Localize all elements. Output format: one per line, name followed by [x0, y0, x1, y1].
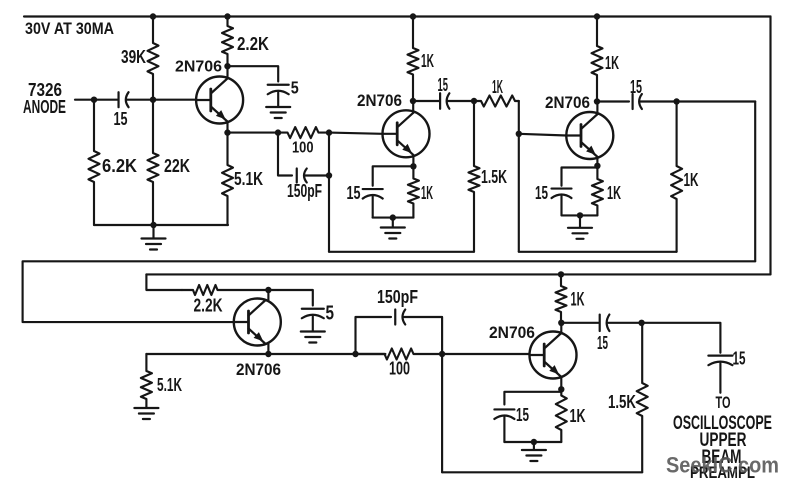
wire Q3 collector: [596, 102, 598, 115]
wire line B (supply to lower stage): [146, 273, 770, 275]
wire C2 to ground: [277, 93, 279, 107]
wire Q3 RC bottom: [562, 214, 598, 216]
svg-text:1K: 1K: [421, 51, 434, 71]
wire collector node to C2: [228, 66, 279, 81]
svg-text:1K: 1K: [684, 170, 699, 190]
svg-text:30V AT 30MA: 30V AT 30MA: [25, 20, 114, 38]
svg-text:1K: 1K: [605, 53, 619, 73]
resistor 1K (Q2 load): [408, 17, 419, 102]
wire Q5 emitter: [560, 377, 562, 390]
ground (input stage): [142, 237, 166, 239]
node Q5 collector node: [558, 320, 564, 326]
wire series-1K to Q3 base: [518, 101, 520, 134]
resistor 1.5K (Q5 feedback): [637, 323, 648, 473]
resistor 1K (Q5 load): [556, 274, 567, 322]
svg-text:2N706: 2N706: [236, 361, 281, 379]
transistor Q5 2N706: [530, 332, 577, 379]
svg-text:15: 15: [347, 183, 361, 203]
svg-text:ANODE: ANODE: [23, 97, 66, 117]
svg-text:2.2K: 2.2K: [237, 34, 269, 54]
wire ground stub (input stage): [152, 225, 154, 238]
resistor 5.1K (Q4 emitter): [141, 354, 152, 408]
node rail-39K junction: [150, 13, 156, 19]
wire Q5 base feedback riser: [441, 354, 443, 472]
node 150pF junction: [326, 172, 332, 178]
wire Q4 emitter line: [146, 353, 268, 355]
svg-text:15: 15: [438, 75, 449, 95]
svg-text:2N706: 2N706: [357, 91, 402, 110]
resistor 1K (series to Q3): [474, 96, 519, 107]
resistor 2.2K (Q4 load): [182, 285, 268, 295]
wire Q2 RC bottom: [373, 217, 414, 219]
wire Q5 ground stub: [533, 442, 535, 450]
wire Q3 base feedback riser: [518, 134, 520, 252]
transistor Q3 2N706: [566, 112, 613, 159]
wire Q3 collector node to C7: [597, 100, 629, 102]
node Q3 base junction: [516, 131, 522, 137]
capacitor C7 15 (Q3 output): [631, 94, 633, 109]
wire Q4 emitter to 100: [268, 353, 385, 355]
resistor 39K: [148, 17, 159, 100]
svg-text:2N706: 2N706: [489, 323, 535, 342]
wire line A (signal to lower stage): [23, 261, 756, 322]
wire Q2 collector node to C4: [413, 100, 439, 102]
node X3: [673, 98, 679, 104]
wire Q1 emitter to 100: [228, 132, 279, 134]
ground (5.1K): [134, 407, 158, 409]
wire right riser down (output to line A): [754, 102, 756, 262]
capacitor C10 5 (Q4 collector bypass): [302, 308, 324, 310]
capacitor 15 (Q2 emitter): [363, 188, 383, 190]
node Q3 RC ground junction: [577, 212, 583, 218]
wire Q4 emitter: [267, 344, 269, 355]
node Q2 emitter node: [410, 163, 416, 169]
ground (Q2 emitter): [381, 226, 405, 228]
svg-text:SeekIC.com: SeekIC.com: [666, 453, 779, 478]
wire 150pF to junction: [305, 174, 329, 176]
svg-text:15: 15: [114, 109, 128, 129]
wire C13 to node X5: [608, 322, 642, 324]
wire Q5 RC bottom: [504, 441, 561, 443]
resistor 1K (Q3 emitter): [592, 166, 603, 216]
wire Q5 collector node to C13: [561, 322, 598, 324]
resistor 2.2K (Q1 load): [222, 17, 233, 67]
wire C10 to ground: [312, 317, 314, 332]
wire to Q2 base: [329, 133, 383, 134]
ground (C2): [266, 106, 290, 108]
resistor 22K: [148, 100, 159, 225]
wire Q3 base junction to base: [519, 134, 567, 136]
svg-text:39K: 39K: [121, 47, 146, 67]
transistor Q1 2N706: [196, 77, 243, 124]
svg-text:5.1K: 5.1K: [157, 375, 182, 395]
wire Q5 RC bottom-left: [503, 417, 505, 442]
wire Q2 RC top: [373, 166, 414, 186]
node Q1 collector node: [224, 63, 230, 69]
wire Q5 RC top: [504, 392, 561, 405]
resistor 100 (series, Q5 input): [356, 349, 443, 360]
resistor 1K (Q2 emitter): [408, 166, 419, 217]
wire input from 7326 anode: [75, 99, 118, 101]
wire Q5 feedback bottom: [442, 471, 642, 473]
wire 150pF branch down-left: [278, 133, 292, 176]
svg-text:6.2K: 6.2K: [102, 156, 137, 176]
node input-6.2K junction: [91, 97, 97, 103]
node Q5 RC ground junction: [531, 439, 537, 445]
node line B - 1K (Q5 load) junction: [558, 271, 564, 277]
svg-text:1K: 1K: [570, 406, 586, 426]
node rail-1K (stage2) junction: [410, 13, 416, 19]
wire 150pF to Q5 base riser: [403, 317, 442, 354]
svg-text:1K: 1K: [571, 290, 585, 311]
node Q4 emitter node: [265, 351, 271, 357]
wire Q2 ground stub: [392, 218, 394, 227]
wire Q4 collector node to C10: [268, 290, 312, 306]
wire C7 to node X3: [640, 100, 677, 102]
transistor Q4 2N706: [234, 299, 281, 346]
capacitor 15 (Q3 emitter): [552, 187, 572, 189]
node rail-1K (stage3) junction: [594, 13, 600, 19]
svg-text:15: 15: [516, 405, 529, 425]
svg-text:1.5K: 1.5K: [608, 392, 636, 412]
svg-text:1K: 1K: [421, 183, 433, 203]
node ground junction (input stage): [150, 222, 156, 228]
svg-text:15: 15: [535, 183, 548, 203]
wire bias bottom: [94, 224, 228, 226]
svg-text:TO: TO: [716, 394, 731, 412]
svg-text:1.5K: 1.5K: [481, 167, 507, 187]
wire base node to Q1 base: [153, 99, 196, 101]
node 150pF-100 junction (bottom): [352, 351, 358, 357]
resistor 1K (Q3 feedback): [671, 102, 682, 252]
wire to Q5 base: [442, 353, 529, 355]
wire Q3 RC top: [562, 168, 598, 186]
wire Q2 feedback bottom: [329, 251, 474, 253]
capacitor C15 15 (output): [708, 355, 732, 357]
node X2: [471, 98, 477, 104]
wire Q2 base feedback riser: [328, 133, 330, 252]
transistor Q2 2N706: [383, 110, 430, 157]
resistor 1.5K (Q2 feedback): [469, 101, 480, 252]
capacitor 150pF (top): [296, 169, 298, 183]
node Q2 RC ground junction: [390, 214, 396, 220]
capacitor C2 5 (Q1 collector bypass): [268, 84, 289, 86]
svg-text:2.2K: 2.2K: [194, 296, 223, 316]
wire C4 to node X2: [448, 100, 475, 102]
svg-text:1K: 1K: [607, 183, 621, 203]
wire Q2 collector: [412, 101, 414, 113]
node T1 base node: [150, 97, 156, 103]
svg-text:5: 5: [326, 303, 335, 325]
resistor 6.2K: [89, 100, 100, 225]
wire Q3 feedback bottom: [519, 251, 677, 253]
ground (Q3 emitter): [568, 227, 592, 229]
svg-text:5.1K: 5.1K: [234, 169, 263, 189]
node Q1 emitter node: [224, 129, 230, 135]
ground (Q5 emitter): [522, 449, 546, 451]
capacitor C13 15 (Q5 output): [599, 315, 601, 332]
capacitor C1 15 (input coupling): [117, 92, 119, 107]
node Q5 base junction: [439, 351, 445, 357]
wire 30V supply rail (top): [24, 15, 771, 17]
node X5: [638, 320, 644, 326]
wire Q3 ground stub: [579, 215, 581, 227]
wire output stub: [719, 363, 721, 393]
ground (C10): [301, 330, 325, 332]
capacitor C4 15 (Q2 output): [439, 93, 441, 109]
wire right edge supply drop: [769, 17, 771, 275]
svg-text:2N706: 2N706: [175, 59, 222, 76]
svg-text:100: 100: [389, 359, 410, 379]
svg-text:1K: 1K: [492, 77, 503, 97]
svg-text:22K: 22K: [164, 156, 190, 176]
svg-text:2N706: 2N706: [545, 93, 590, 112]
node Q4 collector node: [265, 287, 271, 293]
wire 150pF branch up (bottom): [356, 317, 392, 354]
svg-text:150pF: 150pF: [287, 181, 322, 201]
wire line B corner down: [146, 274, 182, 290]
wire Q3 RC bottom-left: [560, 196, 562, 215]
svg-text:100: 100: [292, 140, 314, 157]
wire Q5 collector: [560, 323, 562, 334]
svg-text:15: 15: [630, 77, 642, 97]
svg-text:15: 15: [597, 333, 608, 353]
wire Q1 collector: [226, 66, 228, 76]
node Q3 collector node: [594, 98, 600, 104]
capacitor 150pF (bottom): [394, 310, 396, 325]
wire Q2 RC bottom-left: [372, 197, 374, 218]
svg-text:5: 5: [291, 78, 299, 98]
node emitter-150pF junction: [275, 129, 281, 135]
node Q2 collector node: [410, 98, 416, 104]
node rail-2.2K junction: [224, 13, 230, 19]
resistor 1K (Q3 load): [592, 17, 603, 102]
node 100-Q2 base junction: [326, 129, 332, 135]
svg-text:150pF: 150pF: [377, 287, 418, 307]
node Q5 emitter node: [558, 386, 564, 392]
wire Q1 emitter: [226, 122, 228, 133]
wire Q2 emitter: [412, 155, 414, 166]
resistor 1K (Q5 emitter): [556, 389, 567, 442]
svg-text:15: 15: [733, 348, 746, 368]
wire C1 to base node: [127, 99, 154, 101]
resistor 100 (series, stage2 input): [278, 127, 329, 138]
capacitor 15 (Q5 emitter): [494, 408, 514, 410]
wire X3 to right riser: [677, 100, 756, 102]
wire Q3 emitter: [596, 157, 598, 166]
resistor 5.1K (Q1 emitter): [222, 133, 233, 225]
node Q3 emitter node: [594, 163, 600, 169]
wire Q4 collector: [267, 290, 269, 301]
wire X5 to output cap: [642, 323, 721, 353]
